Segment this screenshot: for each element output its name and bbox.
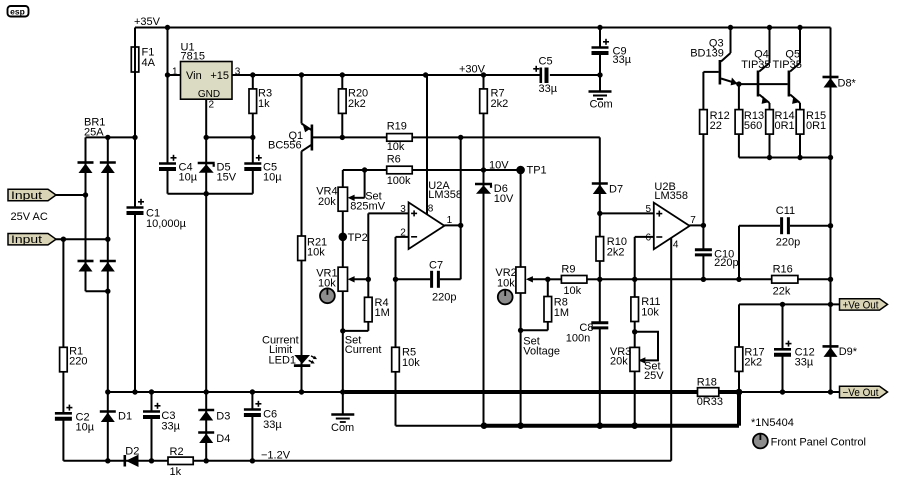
svg-text:25V AC: 25V AC xyxy=(11,211,48,223)
svg-text:220p: 220p xyxy=(776,237,800,249)
svg-text:1: 1 xyxy=(447,215,453,226)
svg-text:25A: 25A xyxy=(84,127,104,139)
svg-text:Com: Com xyxy=(590,99,613,111)
svg-text:10k: 10k xyxy=(402,357,420,369)
svg-text:TP2: TP2 xyxy=(348,232,368,244)
svg-text:+Ve Out: +Ve Out xyxy=(843,299,879,311)
svg-text:10k: 10k xyxy=(641,306,659,318)
svg-text:−Ve Out: −Ve Out xyxy=(843,387,879,399)
svg-text:10µ: 10µ xyxy=(263,172,282,184)
svg-text:GND: GND xyxy=(198,89,220,100)
svg-text:R6: R6 xyxy=(387,154,401,166)
svg-text:1k: 1k xyxy=(170,466,182,478)
svg-text:BC556: BC556 xyxy=(268,140,302,152)
svg-text:R16: R16 xyxy=(773,264,793,276)
svg-text:33µ: 33µ xyxy=(263,419,282,431)
svg-text:7: 7 xyxy=(690,215,696,226)
svg-text:R19: R19 xyxy=(387,121,407,133)
svg-text:Com: Com xyxy=(331,422,354,434)
svg-text:33µ: 33µ xyxy=(795,357,814,369)
svg-text:3: 3 xyxy=(235,66,241,77)
svg-text:4: 4 xyxy=(673,239,679,250)
svg-text:2: 2 xyxy=(209,100,215,111)
svg-text:R2: R2 xyxy=(170,446,184,458)
svg-text:*1N5404: *1N5404 xyxy=(751,417,794,429)
svg-text:33µ: 33µ xyxy=(539,83,558,95)
svg-text:esp: esp xyxy=(10,7,25,17)
svg-text:+35V: +35V xyxy=(134,16,161,28)
svg-text:C5: C5 xyxy=(539,56,553,68)
svg-text:33µ: 33µ xyxy=(161,420,180,432)
svg-text:1M: 1M xyxy=(554,307,569,319)
svg-text:1: 1 xyxy=(172,66,178,77)
svg-text:Voltage: Voltage xyxy=(523,345,560,357)
svg-text:0R1: 0R1 xyxy=(775,120,795,132)
svg-text:220: 220 xyxy=(69,356,87,368)
svg-text:D3: D3 xyxy=(216,410,230,422)
svg-text:7815: 7815 xyxy=(181,50,205,62)
svg-text:4A: 4A xyxy=(142,57,156,69)
svg-text:220p: 220p xyxy=(714,257,738,269)
svg-text:Current: Current xyxy=(345,344,382,356)
svg-text:20k: 20k xyxy=(318,196,336,208)
svg-text:10k: 10k xyxy=(563,285,581,297)
svg-text:R18: R18 xyxy=(697,376,717,388)
svg-text:TP1: TP1 xyxy=(527,165,547,177)
svg-text:D9*: D9* xyxy=(839,346,858,358)
svg-text:D7: D7 xyxy=(609,183,623,195)
svg-text:Front Panel Control: Front Panel Control xyxy=(771,436,866,448)
svg-text:20k: 20k xyxy=(610,356,628,368)
svg-text:C11: C11 xyxy=(776,205,795,217)
svg-text:10k: 10k xyxy=(307,247,325,259)
svg-text:Input: Input xyxy=(11,234,42,246)
svg-text:33µ: 33µ xyxy=(613,54,632,66)
svg-text:100n: 100n xyxy=(566,332,590,344)
svg-text:−1.2V: −1.2V xyxy=(261,449,291,461)
svg-text:+30V: +30V xyxy=(459,64,486,76)
svg-text:10V: 10V xyxy=(489,159,509,171)
svg-text:D4: D4 xyxy=(216,433,230,445)
svg-text:0R1: 0R1 xyxy=(806,120,826,132)
svg-text:Vin: Vin xyxy=(186,70,202,82)
svg-text:C7: C7 xyxy=(429,259,443,271)
svg-text:2: 2 xyxy=(400,227,406,238)
svg-text:D2: D2 xyxy=(125,446,139,458)
svg-text:220p: 220p xyxy=(432,291,456,303)
svg-text:825mV: 825mV xyxy=(350,200,386,212)
svg-text:10µ: 10µ xyxy=(76,422,95,434)
svg-text:BD139: BD139 xyxy=(690,48,724,60)
svg-text:+15: +15 xyxy=(210,70,229,82)
svg-text:2k2: 2k2 xyxy=(348,98,366,110)
svg-text:10,000µ: 10,000µ xyxy=(146,218,187,230)
svg-text:22k: 22k xyxy=(773,285,791,297)
svg-text:22: 22 xyxy=(710,120,722,132)
svg-text:8: 8 xyxy=(428,204,434,215)
svg-text:TIP35: TIP35 xyxy=(773,59,802,71)
svg-text:10V: 10V xyxy=(494,193,514,205)
svg-text:25V: 25V xyxy=(644,370,664,382)
svg-text:2k2: 2k2 xyxy=(491,98,509,110)
svg-text:0R33: 0R33 xyxy=(697,396,723,408)
svg-text:560: 560 xyxy=(744,120,762,132)
svg-text:R9: R9 xyxy=(561,263,575,275)
svg-text:2k2: 2k2 xyxy=(744,357,762,369)
svg-text:Input: Input xyxy=(11,190,42,202)
svg-text:1k: 1k xyxy=(258,98,270,110)
svg-text:10k: 10k xyxy=(497,278,515,290)
svg-text:3: 3 xyxy=(400,204,406,215)
svg-text:D1: D1 xyxy=(118,410,132,422)
svg-text:LM358: LM358 xyxy=(654,190,688,202)
svg-text:15V: 15V xyxy=(217,172,237,184)
svg-text:TIP35: TIP35 xyxy=(741,59,770,71)
svg-text:D8*: D8* xyxy=(838,78,857,90)
svg-text:10k: 10k xyxy=(387,141,405,153)
svg-text:LED1: LED1 xyxy=(269,354,297,366)
svg-text:100k: 100k xyxy=(387,175,411,187)
svg-text:1M: 1M xyxy=(375,307,390,319)
svg-text:10µ: 10µ xyxy=(179,172,198,184)
svg-text:LM358: LM358 xyxy=(428,189,462,201)
svg-text:10k: 10k xyxy=(318,278,336,290)
svg-text:2k2: 2k2 xyxy=(607,246,625,258)
svg-text:6: 6 xyxy=(645,232,651,243)
svg-text:5: 5 xyxy=(645,204,651,215)
